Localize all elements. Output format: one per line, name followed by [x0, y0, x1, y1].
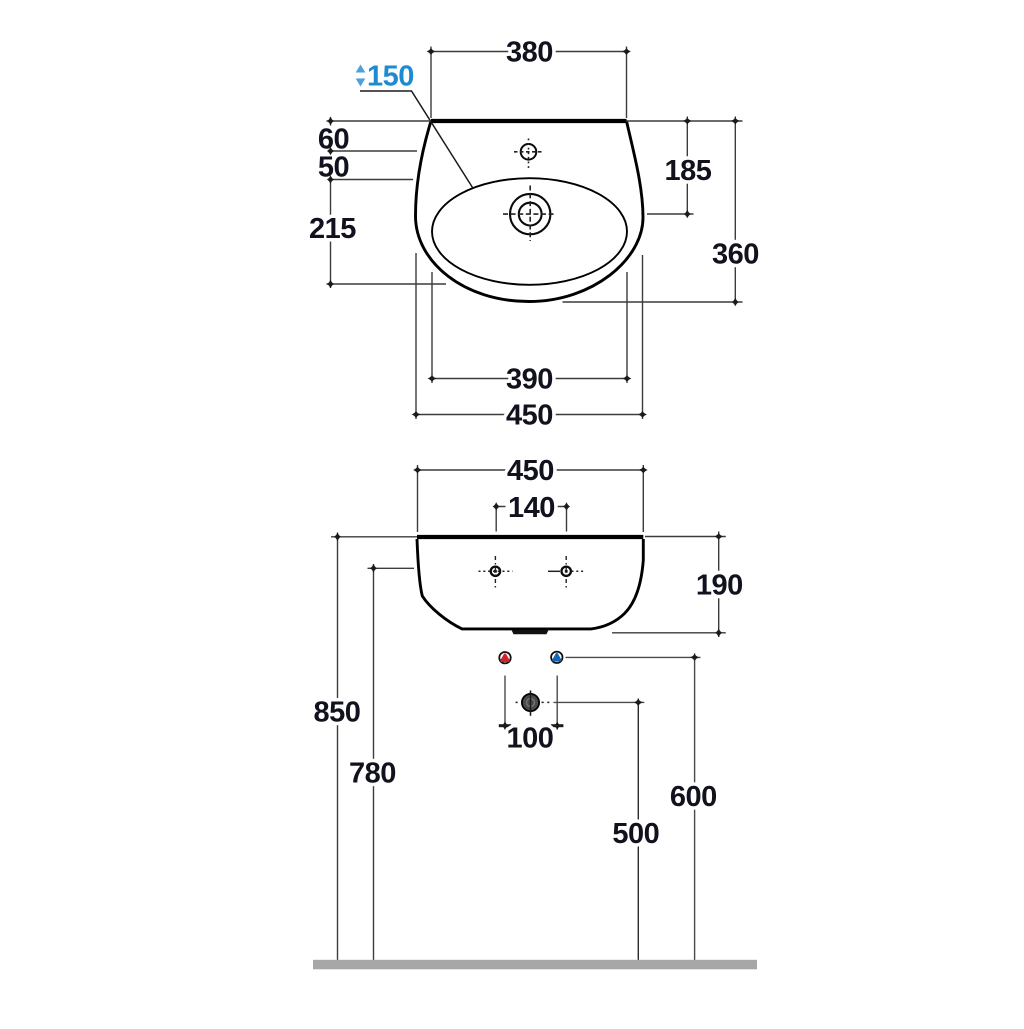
label 150 (blue) with resize icon — [356, 61, 414, 93]
dimension 450 (front view) — [413, 455, 648, 532]
svg-text:150: 150 — [367, 61, 414, 93]
dimension 140 — [493, 492, 571, 532]
left stack horizontal reference lines — [327, 120, 431, 122]
svg-text:450: 450 — [507, 455, 554, 487]
drain hole (top view) — [503, 186, 556, 242]
faucet hole right (front view) — [548, 556, 584, 588]
svg-text:780: 780 — [349, 758, 396, 790]
dimension 360 — [563, 117, 759, 307]
svg-text:360: 360 — [712, 239, 759, 271]
tap hole — [514, 139, 543, 169]
faucet hole left (front view) — [479, 556, 513, 588]
drain tab under basin — [512, 630, 549, 634]
cold water supply (blue) — [551, 652, 562, 663]
svg-text:380: 380 — [506, 37, 553, 69]
dimension 190 — [612, 532, 743, 638]
waste drain (front view, dark circle) — [516, 691, 554, 716]
dimension 450 (top view) — [412, 253, 647, 432]
dimension 185 — [647, 117, 712, 219]
dimension 850 — [314, 532, 417, 960]
right side: top connector — [627, 120, 743, 122]
svg-text:190: 190 — [696, 570, 743, 602]
svg-text:600: 600 — [670, 781, 717, 813]
svg-text:50: 50 — [318, 152, 349, 184]
dimension 390 — [428, 272, 632, 396]
basin outer outline (top view) — [416, 121, 644, 302]
svg-text:500: 500 — [612, 818, 659, 850]
ground line — [313, 960, 757, 970]
dimension 600 — [566, 653, 717, 960]
dimension 780 — [349, 564, 414, 960]
svg-text:215: 215 — [309, 213, 356, 245]
svg-text:140: 140 — [508, 492, 555, 524]
hot water supply (red) — [499, 652, 510, 663]
svg-text:185: 185 — [665, 155, 712, 187]
svg-text:450: 450 — [506, 400, 553, 432]
inner bowl — [432, 178, 627, 285]
svg-text:850: 850 — [314, 697, 361, 729]
dimension 380 — [427, 37, 631, 119]
basin outline (front view) — [417, 537, 643, 629]
dimension 100 — [499, 676, 564, 755]
left stack tick marks — [327, 117, 334, 126]
dimension 500 — [554, 699, 660, 961]
leader line from 150 to bowl — [360, 91, 473, 188]
svg-text:100: 100 — [507, 723, 554, 755]
svg-text:390: 390 — [506, 364, 553, 396]
left dimension stack: vertical line — [330, 117, 332, 288]
